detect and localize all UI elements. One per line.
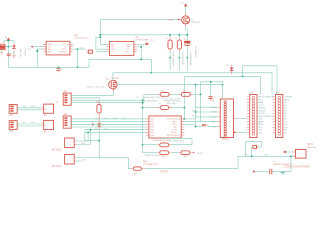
wire: [184, 121, 200, 123]
capacitor C7: [209, 97, 216, 101]
connector JP6: [63, 114, 71, 128]
svg-text:SHUTDOWN_B: SHUTDOWN_B: [167, 135, 181, 137]
svg-text:GND2: GND2: [284, 99, 291, 101]
wire: [98, 130, 100, 157]
svg-text:GND (ARDUINO): GND (ARDUINO): [142, 99, 158, 102]
svg-text:VCC: VCC: [211, 126, 216, 128]
svg-text:VCC: VCC: [80, 48, 85, 50]
svg-text:PD2: PD2: [150, 124, 154, 126]
pin stub T1 gate: [178, 18, 182, 20]
wire: [246, 142, 262, 157]
wire bus to MCU: [71, 118, 146, 120]
svg-text:VIN/GNDBUS: VIN/GNDBUS: [181, 52, 183, 66]
svg-text:A4: A4: [174, 126, 176, 129]
svg-text:R5: R5: [162, 91, 164, 93]
svg-text:SHUTDOWN_A: SHUTDOWN_A: [258, 96, 273, 99]
svg-text:2: 2: [70, 144, 71, 146]
svg-text:C2: C2: [61, 69, 63, 71]
svg-text:PB4: PB4: [150, 129, 154, 131]
wire: [37, 49, 43, 67]
connector X1 power jack: [0, 43, 5, 49]
wire: [186, 46, 188, 70]
node junction: [195, 111, 197, 113]
relay K2: [41, 120, 53, 133]
resistor R10: [178, 151, 191, 159]
wire: [71, 97, 99, 99]
svg-text:GATE: GATE: [168, 18, 174, 21]
connector JP2: [56, 91, 71, 105]
svg-text:C3: C3: [184, 39, 186, 41]
wire: [196, 111, 218, 113]
wire: [271, 73, 273, 94]
wire: [85, 130, 99, 141]
wire: [3, 40, 14, 42]
svg-text:+5V: +5V: [150, 40, 154, 42]
wire: [77, 157, 99, 159]
node junction: [169, 34, 171, 36]
transistor T2: [106, 78, 120, 89]
wire: [71, 121, 146, 123]
wire: [100, 19, 106, 44]
wire: [96, 51, 107, 53]
svg-text:MOSI: MOSI: [211, 112, 217, 114]
svg-text:SHUTDOWN_A: SHUTDOWN_A: [167, 118, 181, 121]
svg-text:17mA (beGELLOW): 17mA (beGELLOW): [142, 96, 161, 99]
resistor R4 reset pullup: [155, 103, 173, 109]
svg-text:S1: S1: [44, 109, 46, 111]
wire: [7, 47, 9, 68]
svg-text:MMA: MMA: [258, 101, 263, 104]
IC1 regulator: [46, 35, 88, 55]
wire: [77, 49, 79, 67]
svg-text:INT-SW1: INT-SW1: [52, 166, 62, 168]
wire: [73, 48, 86, 50]
svg-text:MOSI20: MOSI20: [258, 108, 266, 110]
node junction: [187, 34, 189, 36]
diode D4: [252, 145, 258, 148]
svg-text:SHUTDOWN_B: SHUTDOWN_B: [258, 116, 273, 118]
svg-text:GND: GND: [150, 135, 155, 137]
svg-text:MOSI: MOSI: [198, 153, 204, 155]
resistor R9: [157, 151, 171, 159]
supply flag +VIN: [4, 36, 10, 41]
node junction: [87, 132, 89, 134]
wire: [172, 93, 179, 95]
resistor R5: [158, 91, 172, 97]
node junction: [98, 140, 100, 142]
svg-text:(CROWBAR-OPT): (CROWBAR-OPT): [143, 163, 159, 166]
svg-text:PB5: PB5: [150, 132, 154, 134]
svg-text:+5V/MAXIMAL: +5V/MAXIMAL: [189, 52, 192, 67]
wire: [169, 51, 171, 70]
svg-text:R10: R10: [134, 173, 137, 175]
svg-text:INT3: INT3: [173, 124, 177, 126]
svg-text:DPO7051OM6P: DPO7051OM6P: [135, 40, 149, 42]
wire below MCU row2: [143, 152, 158, 154]
net flag arrow +9V: [283, 151, 286, 154]
svg-text:INT2: INT2: [173, 121, 177, 123]
wire: [17, 109, 41, 111]
node junction: [195, 126, 197, 128]
pin stubs IC2 left: [107, 44, 110, 51]
svg-text:1: 1: [70, 141, 71, 143]
svg-text:INT-SW2: INT-SW2: [52, 149, 62, 151]
wire: [161, 138, 192, 144]
svg-text:TINYBUF: TINYBUF: [59, 51, 68, 53]
svg-text:GND: GND: [244, 155, 249, 157]
svg-text:reprends l’alim USB: reprends l’alim USB: [86, 85, 105, 88]
svg-text:CONNEXION BATTERIE: CONNEXION BATTERIE: [284, 166, 310, 169]
connector X4: [9, 105, 17, 118]
pin stubs IC3 right: [181, 119, 184, 135]
node junction: [184, 107, 186, 109]
wire: [144, 93, 158, 95]
wire: [251, 147, 253, 156]
svg-text:D1: D1: [11, 52, 13, 54]
net labels JP8: [284, 97, 293, 135]
wire: [96, 37, 107, 49]
connector X5: [9, 121, 17, 134]
wire: [195, 85, 197, 127]
node junction: [77, 48, 79, 50]
net labels JP7: [258, 96, 273, 135]
svg-text:MISO: MISO: [192, 111, 198, 113]
switch S2 box: [52, 138, 77, 151]
wire: [196, 116, 218, 118]
wire: [96, 36, 100, 38]
wire: [17, 123, 41, 125]
wire: [184, 123, 195, 125]
wire: [236, 131, 246, 133]
diode D5: [226, 65, 233, 75]
wire: [171, 152, 178, 154]
resistor R2: [175, 35, 182, 52]
battery BAT1: [293, 143, 316, 158]
wire below MCU row1: [143, 144, 158, 146]
node junction: [140, 46, 142, 48]
svg-text:SCK: SCK: [192, 115, 197, 117]
svg-text:VCC: VCC: [27, 49, 32, 51]
svg-text:GND: GND: [264, 155, 269, 157]
resistor R1: [165, 35, 172, 52]
svg-text:X1: X1: [0, 43, 2, 45]
wire: [33, 46, 43, 48]
svg-text:OUT4: OUT4: [258, 105, 264, 107]
LED D2: [92, 116, 105, 130]
net flag arrow: [234, 131, 236, 133]
svg-text:BAT-9V60: BAT-9V60: [308, 146, 316, 149]
svg-text:GND: GND: [81, 143, 86, 145]
svg-text:R6: R6: [183, 91, 185, 93]
wire: [99, 158, 131, 169]
pin stubs IC1 left: [43, 44, 46, 51]
svg-text:+5V (LADEN): +5V (LADEN): [194, 45, 197, 58]
wire: [77, 160, 82, 162]
pin stubs X6 left: [217, 107, 220, 126]
connector X6 ISP hatched: [211, 99, 233, 141]
svg-text:R8: R8: [162, 157, 164, 159]
IC3 microcontroller: [143, 116, 181, 166]
wire: [77, 130, 91, 145]
svg-text:C7: C7: [214, 97, 216, 99]
svg-text:NDS356P: NDS356P: [191, 22, 201, 24]
node junction: [242, 76, 244, 78]
svg-text:COMMS: COMMS: [284, 97, 293, 99]
pin stub T2 source: [113, 89, 115, 91]
node junction: [37, 50, 39, 52]
node junction: [142, 144, 144, 146]
capacitor C2: [56, 67, 63, 73]
svg-text:PWR IN: PWR IN: [23, 49, 25, 57]
node junction: [251, 156, 253, 158]
pin stubs JP8: [273, 97, 276, 133]
net flag arrow: [192, 152, 194, 154]
node junction: [77, 67, 79, 69]
pin stubs IC3 left: [146, 119, 149, 135]
net flag arrow: [178, 19, 180, 21]
svg-text:R9: R9: [184, 157, 186, 159]
wire: [71, 102, 142, 104]
wire: [200, 82, 202, 122]
wire: [77, 132, 88, 141]
switch S1 box: [52, 154, 77, 167]
wire: [186, 27, 188, 40]
svg-text:TP RDA: TP RDA: [160, 171, 169, 174]
wire: [3, 41, 5, 45]
wire: [150, 59, 152, 72]
supply flag +5V at IC2: [137, 40, 154, 45]
svg-text:MISO20: MISO20: [258, 110, 266, 112]
svg-text:PD1: PD1: [150, 121, 154, 123]
node junction: [290, 156, 292, 158]
svg-text:PB3: PB3: [150, 127, 154, 129]
wire T2 drain right: [117, 84, 222, 86]
supply flag +5V above T1: [180, 2, 187, 6]
wire staircase to headers: [184, 76, 260, 94]
wire: [196, 106, 218, 108]
node junction: [142, 107, 144, 109]
connector SV2: [86, 50, 92, 53]
relay K1: [41, 104, 53, 117]
node junction: [151, 72, 153, 74]
capacitor C6: [7, 54, 11, 56]
wire: [201, 82, 223, 99]
svg-text:2: 2: [70, 161, 71, 163]
pin stub T1 bottom: [185, 24, 187, 27]
resistor R3: [96, 98, 101, 116]
svg-text:AREF: AREF: [258, 121, 264, 124]
wire: [236, 117, 246, 119]
svg-text:FDN340P: FDN340P: [111, 78, 120, 80]
wire GND rail bottom of power section: [9, 59, 152, 67]
node junction: [184, 118, 186, 120]
resistor R7: [131, 167, 146, 176]
wire: [184, 118, 195, 120]
wire: [7, 41, 9, 47]
svg-text:S2: S2: [44, 125, 46, 127]
wire: [143, 107, 155, 109]
svg-text:SCK: SCK: [211, 117, 216, 119]
wire: [243, 66, 277, 94]
wire: [5, 46, 12, 48]
wire: [113, 73, 272, 81]
wire: [71, 91, 113, 96]
svg-text:RST: RST: [211, 121, 216, 123]
wire: [71, 126, 146, 128]
capacitor C3 polarized: [184, 39, 190, 45]
header JP7: [250, 92, 257, 137]
transistor T1: [182, 16, 201, 24]
svg-text:SW: SW: [83, 159, 86, 161]
node junction: [90, 129, 92, 131]
svg-text:PD0: PD0: [150, 119, 154, 121]
node junction: [8, 46, 10, 48]
svg-text:1: 1: [70, 157, 71, 159]
wire: [210, 82, 212, 97]
node junction: [187, 34, 189, 36]
svg-text:BAT1: BAT1: [308, 143, 314, 146]
wire: [137, 47, 141, 60]
wire: [178, 51, 180, 70]
node junction: [210, 81, 212, 83]
header JP8: [276, 92, 283, 137]
svg-text:R1: R1: [165, 38, 167, 40]
pin stubs IC1 right: [70, 44, 73, 51]
svg-text:MISO: MISO: [211, 107, 217, 109]
wire: [146, 156, 296, 168]
capacitor C9: [253, 156, 310, 174]
pin stubs JP7: [247, 97, 250, 133]
svg-text:D5: D5: [226, 65, 228, 67]
node junction: [195, 84, 197, 86]
wire: [100, 18, 178, 20]
node junction: [8, 40, 10, 42]
wire vertical bus left of MCU: [142, 100, 144, 152]
svg-text:R2: R2: [175, 38, 177, 40]
svg-text:PROG: PROG: [222, 139, 229, 141]
diode D3: [203, 124, 209, 127]
node junction: [100, 36, 102, 38]
wire 5V rail: [100, 34, 187, 36]
wire: [196, 125, 203, 127]
svg-text:SDA: SDA: [258, 123, 263, 126]
svg-text:MOSI: MOSI: [171, 132, 176, 134]
resistor R6: [179, 91, 193, 97]
svg-text:GND (ARDUINO): GND (ARDUINO): [168, 139, 184, 142]
ground: [12, 56, 16, 57]
node junction: [200, 94, 202, 96]
pin stubs X6 right: [234, 118, 237, 132]
svg-text:VIN: VIN: [4, 36, 6, 40]
node junction: [100, 34, 102, 36]
net flag arrow PWR: [31, 46, 33, 48]
svg-text:USB/GNDBUSB: USB/GNDBUSB: [172, 52, 174, 68]
node junction: [142, 99, 144, 101]
diode D1: [11, 44, 15, 54]
svg-text:MC33269DT-5.0: MC33269DT-5.0: [75, 37, 89, 39]
svg-text:OUT5: OUT5: [173, 129, 178, 131]
node junction: [140, 59, 142, 61]
resistor R8: [157, 143, 171, 147]
wire: [201, 121, 218, 123]
wire: [85, 129, 146, 131]
svg-text:(ITMA GNDE&DI): (ITMA GNDE&DI): [145, 154, 162, 157]
wire: [143, 94, 145, 104]
node junction: [222, 84, 224, 86]
wire: [183, 76, 185, 119]
pin stub T1 top: [185, 13, 187, 16]
wire: [71, 123, 146, 125]
wire: [17, 125, 41, 127]
wire: [185, 6, 187, 16]
wire: [193, 93, 201, 95]
IC2 regulator: [110, 37, 150, 55]
wire: [17, 107, 41, 109]
wire: [71, 99, 142, 101]
svg-text:SCK20: SCK20: [258, 113, 265, 115]
node junction: [142, 102, 144, 104]
wire: [208, 125, 217, 127]
wire: [173, 107, 184, 109]
node junction: [179, 34, 181, 36]
pin stubs IC2 right: [134, 44, 137, 51]
svg-text:ADJ: ADJ: [48, 50, 52, 53]
wire: [85, 131, 146, 133]
svg-text:(3785 GA): (3785 GA): [166, 102, 176, 105]
svg-text:GND VIN: GND VIN: [19, 49, 21, 58]
ground: [0, 50, 3, 54]
svg-text:GND: GND: [258, 119, 263, 121]
